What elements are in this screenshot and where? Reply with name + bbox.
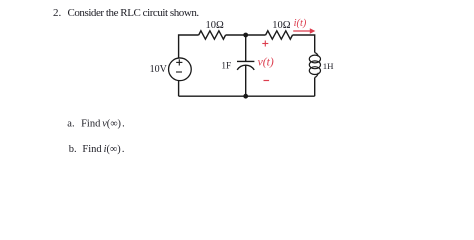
svg-text:1H: 1H [323,61,334,71]
voltage source minus sign [176,71,182,73]
voltage source V1 circle [169,58,192,81]
svg-text:10Ω: 10Ω [205,20,224,31]
capacitor C1 top plate [237,60,254,62]
label: capacitor voltage polarity minus (red) [264,80,270,82]
svg-text:1F: 1F [221,62,231,72]
svg-text:i(∞).: i(∞). [104,144,125,155]
svg-text:2.: 2. [53,7,62,19]
svg-text:Consider the RLC circuit shown: Consider the RLC circuit shown. [68,7,200,19]
svg-text:10V: 10V [150,64,168,75]
question a text [67,118,124,129]
svg-text:i(t): i(t) [294,18,307,29]
wire: R1 to node A [226,34,246,36]
svg-text:a.: a. [67,118,74,129]
current direction arrow (red) [293,28,315,33]
node A junction dot (top middle) [243,33,248,38]
label: capacitor voltage polarity plus (red) [262,41,268,47]
node B junction dot (bottom middle) [243,94,248,99]
svg-text:v(∞).: v(∞). [102,118,125,129]
wire: inductor bottom to bottom-right corner [314,78,316,97]
capacitor C1 curved bottom plate [237,65,254,70]
svg-text:Find: Find [82,144,102,155]
voltage source plus sign [176,59,182,65]
svg-text:10Ω: 10Ω [272,20,291,31]
svg-text:Find: Find [81,118,101,129]
inductor L1 coil [309,53,320,78]
wire: node A down to capacitor C1 [245,35,247,61]
question b text [69,144,125,155]
wire: node A to resistor R2 [246,34,266,36]
svg-text:b.: b. [69,144,77,155]
wire: voltage source bottom to bottom-left corner [178,81,180,97]
wire: capacitor to node B [245,65,247,96]
bottom wire [179,95,315,97]
problem statement text [53,7,199,19]
wire: R2 to top-right corner, down to inductor [293,35,315,53]
resistor R2 (10 ohm) zigzag [266,31,293,39]
wire: top-left corner to resistor R1 [179,35,199,58]
resistor R1 (10 ohm) zigzag [199,31,226,39]
svg-text:v(t): v(t) [258,55,274,68]
